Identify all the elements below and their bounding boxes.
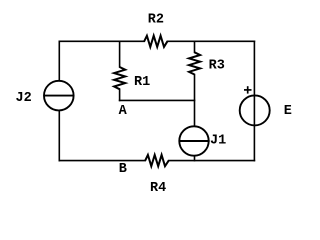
svg-text:R2: R2 <box>148 13 164 28</box>
svg-text:R4: R4 <box>150 181 166 196</box>
svg-text:J2: J2 <box>16 91 32 106</box>
svg-text:B: B <box>119 162 127 177</box>
svg-text:J1: J1 <box>210 134 226 149</box>
svg-text:E: E <box>284 104 292 119</box>
svg-text:A: A <box>119 104 128 119</box>
svg-text:R3: R3 <box>209 59 225 74</box>
svg-text:R1: R1 <box>134 75 150 90</box>
